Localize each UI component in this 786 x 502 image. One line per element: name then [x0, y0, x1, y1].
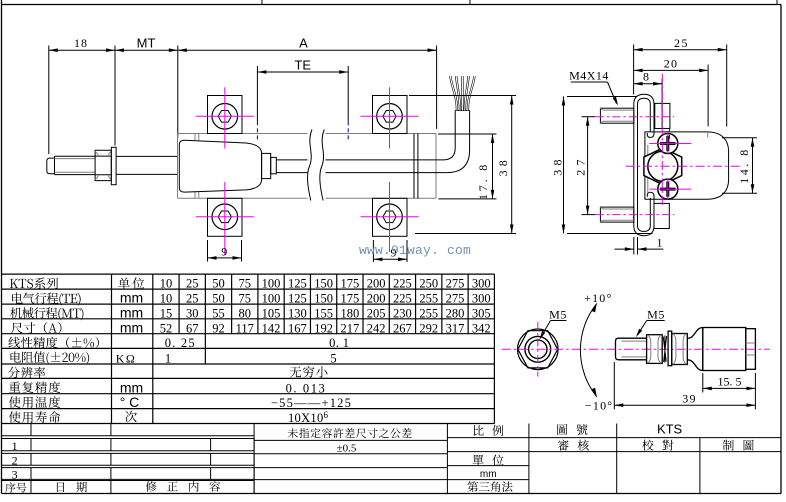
svg-text:200: 200 [367, 292, 386, 306]
svg-text:105: 105 [262, 306, 281, 320]
sensor rail body outline [178, 134, 437, 199]
svg-text:9: 9 [221, 244, 227, 258]
svg-text:242: 242 [367, 321, 386, 335]
svg-text:M5: M5 [647, 308, 665, 322]
svg-text:25: 25 [186, 277, 199, 291]
svg-text:80: 80 [239, 306, 252, 320]
bracket hole top-right [377, 104, 403, 130]
title block latin texts [337, 422, 683, 481]
svg-text:225: 225 [393, 292, 412, 306]
svg-text:mm: mm [120, 379, 143, 395]
svg-text:205: 205 [367, 306, 386, 320]
svg-text:150: 150 [314, 277, 333, 291]
boot coupler step 2 [271, 157, 277, 173]
dimension 15.5 [703, 373, 756, 409]
svg-text:TE: TE [294, 58, 311, 73]
dimension 38 main view [409, 96, 516, 234]
stud nut block bottom [654, 203, 669, 228]
svg-text:30: 30 [186, 306, 199, 320]
svg-text:±0.5: ±0.5 [337, 442, 357, 454]
svg-text:125: 125 [288, 277, 307, 291]
svg-text:KTS: KTS [657, 422, 683, 437]
svg-text:200: 200 [367, 277, 386, 291]
svg-text:255: 255 [419, 306, 438, 320]
central shaft hex nut (section) [644, 148, 682, 185]
bracket hole bottom-left [212, 204, 238, 230]
svg-text:1: 1 [12, 439, 18, 453]
svg-text:+10°: +10° [584, 291, 612, 305]
table grid lines [2, 274, 495, 423]
table row MT values [160, 306, 491, 320]
rail left seam lines [195, 134, 199, 199]
svg-text:100: 100 [262, 292, 281, 306]
svg-text:3 8: 3 8 [496, 160, 510, 177]
crosshair top-left [196, 87, 254, 148]
svg-text:300: 300 [472, 277, 491, 291]
mounting bracket top-right [373, 96, 408, 134]
dimension 17.8 [438, 134, 497, 200]
bracket hole top-left [212, 104, 238, 130]
svg-text:255: 255 [419, 292, 438, 306]
svg-text:142: 142 [262, 321, 281, 335]
detail shaft body cylinder [703, 328, 746, 371]
svg-text:150: 150 [314, 292, 333, 306]
svg-text:67: 67 [186, 321, 199, 335]
svg-text:100: 100 [262, 277, 281, 291]
detail shaft end cap [746, 329, 756, 370]
boot coupler step 1 [262, 153, 271, 178]
svg-text:317: 317 [446, 321, 465, 335]
svg-text:mm: mm [120, 319, 143, 335]
table row TE values [160, 292, 491, 306]
bracket plate with hooks (side view) [634, 94, 654, 236]
detail shaft flange [687, 328, 703, 371]
svg-text:25: 25 [674, 36, 689, 50]
svg-text:39: 39 [682, 392, 696, 406]
svg-text:MT: MT [137, 36, 156, 51]
svg-text:50: 50 [212, 277, 225, 291]
svg-text:25: 25 [186, 292, 199, 306]
svg-text:10: 10 [160, 277, 173, 291]
table values precision/resistance rows [165, 336, 352, 425]
shaft rod to body [116, 156, 177, 174]
svg-text:mm: mm [120, 304, 143, 320]
svg-text:175: 175 [341, 277, 360, 291]
mounting bracket bottom-left [208, 198, 243, 236]
svg-text:55: 55 [212, 306, 225, 320]
svg-text:mm: mm [480, 469, 497, 480]
cable wires fan [450, 76, 474, 111]
dimension 1 plate thickness [615, 236, 664, 255]
svg-text:130: 130 [288, 306, 307, 320]
svg-text:0. 25: 0. 25 [165, 336, 196, 350]
detail shaft nut 2 [672, 334, 688, 365]
svg-text:15: 15 [160, 306, 173, 320]
svg-text:275: 275 [446, 292, 465, 306]
detail hex nut M5 front view [518, 329, 559, 370]
dimension MT (mechanical travel) [115, 36, 178, 138]
label M5 nut view [540, 308, 567, 340]
svg-text:92: 92 [212, 321, 225, 335]
svg-text:−10°: −10° [585, 399, 613, 413]
svg-text:125: 125 [288, 292, 307, 306]
table Chinese labels column A [8, 278, 99, 423]
svg-text:155: 155 [314, 306, 333, 320]
svg-text:° C: ° C [120, 394, 140, 410]
dimension 18 (shaft tip to nut) [49, 36, 115, 154]
svg-text:275: 275 [446, 277, 465, 291]
side view centerlines [596, 74, 743, 215]
svg-text:0. 013: 0. 013 [286, 381, 327, 395]
svg-text:75: 75 [239, 292, 252, 306]
detail shaft M5 side view [616, 338, 647, 360]
mounting bracket bottom-right [373, 198, 408, 236]
dimension 25 side view [634, 36, 727, 127]
detail shaft nut 1 [647, 335, 663, 364]
svg-text:175: 175 [341, 292, 360, 306]
shaft threaded tip [47, 158, 55, 174]
rotation arc +10/-10 degrees [580, 291, 613, 413]
detail nut crosshair [502, 322, 770, 377]
table row A values [160, 321, 491, 335]
svg-text:0. 1: 0. 1 [329, 336, 349, 350]
svg-text:225: 225 [393, 277, 412, 291]
svg-text:292: 292 [419, 321, 438, 335]
svg-text:230: 230 [393, 306, 412, 320]
svg-text:8: 8 [643, 70, 649, 84]
dimension 9 right bracket [373, 240, 407, 262]
M4 stud bottom [600, 207, 633, 222]
mounting bracket top-left [208, 96, 243, 134]
svg-text:mm: mm [120, 290, 143, 306]
wiper boot (trapezoid bellows) [179, 140, 261, 192]
svg-text:250: 250 [419, 277, 438, 291]
M4 stud top [600, 108, 633, 123]
title block Chinese texts [5, 424, 754, 493]
svg-text:18: 18 [74, 36, 88, 50]
dimension 8 side view [634, 70, 663, 129]
table unit header and cjk cells [118, 278, 327, 423]
blue dashed mark side view [668, 128, 670, 145]
svg-text:1: 1 [165, 352, 171, 366]
shaft washer flange [111, 147, 116, 184]
crosshair bottom-left [196, 182, 254, 255]
svg-text:2: 2 [12, 453, 18, 467]
svg-text:1: 1 [657, 236, 663, 250]
svg-text:342: 342 [472, 321, 491, 335]
svg-text:217: 217 [341, 321, 360, 335]
svg-text:10: 10 [160, 292, 173, 306]
stud nut block top [655, 103, 670, 128]
detail shaft washer [668, 331, 672, 366]
shaft hex nut [95, 150, 111, 180]
sensor body cross-section [645, 132, 729, 199]
svg-text:3: 3 [12, 468, 18, 482]
cable exit tube with bend [443, 111, 470, 173]
svg-text:M4X14: M4X14 [569, 69, 609, 83]
title block grid [254, 424, 781, 494]
revision table rows [2, 424, 255, 494]
crosshair bottom-right [361, 182, 419, 252]
table unit column entries [116, 290, 143, 411]
dimension TE (electrical travel) [257, 58, 348, 122]
svg-text:M5: M5 [549, 308, 567, 322]
phillips screw top [658, 134, 678, 154]
dimension 14.8 [722, 138, 757, 193]
dimension A (body length) [178, 36, 437, 130]
svg-text:5: 5 [330, 352, 336, 366]
svg-text:300: 300 [472, 292, 491, 306]
svg-text:50: 50 [212, 292, 225, 306]
svg-text:KΩ: KΩ [116, 352, 137, 366]
rail right seam lines [414, 134, 418, 199]
svg-text:192: 192 [314, 321, 333, 335]
label M5 shaft view [636, 308, 665, 338]
label M4X14 with leader [569, 69, 618, 106]
break symbol S-curves [307, 130, 324, 201]
svg-text:3 8: 3 8 [551, 159, 565, 176]
dimension 39 [614, 362, 755, 409]
svg-text:52: 52 [160, 321, 173, 335]
phillips screw bottom [658, 179, 678, 199]
svg-text:2 7: 2 7 [573, 159, 587, 176]
TE electrical-travel blue dashed marks [257, 121, 348, 141]
dimension 27 side view [573, 117, 595, 215]
svg-text:117: 117 [236, 321, 254, 335]
svg-text:20: 20 [664, 57, 678, 71]
dimension 20 side view [634, 57, 709, 127]
table row KTS series values [160, 277, 491, 291]
svg-text:www.91way. com: www.91way. com [359, 243, 471, 258]
svg-text:14. 8: 14. 8 [737, 147, 751, 184]
wiper rod segment [276, 160, 447, 173]
svg-text:167: 167 [288, 321, 307, 335]
svg-text:75: 75 [239, 277, 252, 291]
dimension 38 side view [551, 97, 653, 234]
crosshair top-right [361, 87, 419, 148]
svg-text:267: 267 [393, 321, 412, 335]
shaft threaded rod [55, 156, 96, 174]
svg-text:−55——+125: −55——+125 [271, 396, 352, 410]
svg-text:10X106: 10X106 [288, 410, 329, 425]
svg-text:280: 280 [446, 306, 465, 320]
revision row numbers [12, 439, 18, 482]
dimension 9 left bracket [208, 240, 242, 262]
svg-text:180: 180 [341, 306, 360, 320]
svg-text:17. 8: 17. 8 [476, 162, 490, 200]
svg-text:15. 5: 15. 5 [718, 375, 742, 389]
detail shaft lock washers [663, 336, 666, 363]
svg-text:305: 305 [472, 306, 491, 320]
bracket hole bottom-right [377, 204, 403, 230]
svg-text:A: A [299, 36, 308, 51]
